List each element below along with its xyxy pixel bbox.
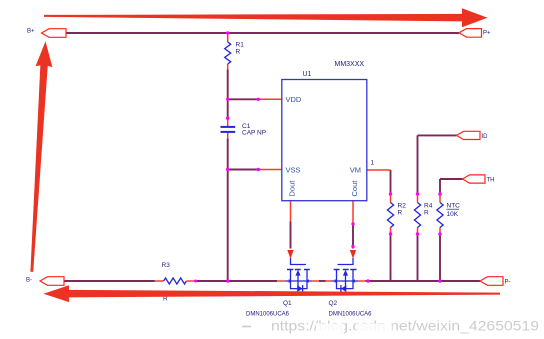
- svg-text:U1: U1: [303, 71, 312, 78]
- pin VDD stub: [258, 98, 282, 100]
- connector B+: [27, 29, 66, 38]
- wire ID net: [418, 135, 457, 281]
- watermark text: [242, 317, 539, 335]
- resistor R2: [387, 194, 406, 234]
- wire VDD row: [228, 98, 259, 100]
- svg-text:B+: B+: [27, 29, 35, 35]
- svg-text:MM3XXX: MM3XXX: [335, 61, 365, 68]
- wire B- bottom rail: [64, 280, 480, 282]
- transistor Q2: [326, 258, 373, 318]
- node junction dots: [194, 31, 442, 282]
- svg-text:Q1: Q1: [283, 300, 292, 307]
- svg-text:TH: TH: [487, 178, 495, 184]
- svg-text:CAP NP: CAP NP: [242, 130, 266, 137]
- svg-text:Cout: Cout: [350, 180, 359, 197]
- pin Cout stub: [352, 201, 354, 223]
- connector TH: [463, 175, 495, 184]
- svg-text:R4: R4: [424, 203, 433, 210]
- wire TH net: [440, 179, 463, 281]
- svg-text:R: R: [236, 49, 241, 56]
- svg-text:https://blog.csdn.net/weixin_4: https://blog.csdn.net/weixin_42650519: [271, 318, 539, 334]
- svg-text:R1: R1: [236, 42, 245, 49]
- svg-text:Dout: Dout: [287, 180, 296, 197]
- svg-text:10K: 10K: [447, 211, 459, 218]
- red annotation arrow left (upward): [23, 41, 53, 273]
- wire C1 vertical: [227, 99, 229, 169]
- wire VM net vertical to R2: [390, 170, 392, 281]
- svg-text:VM: VM: [350, 165, 361, 174]
- wire Dout to Q1 gate: [290, 222, 292, 249]
- svg-text:R2: R2: [398, 203, 407, 210]
- svg-text:1: 1: [371, 160, 375, 167]
- resistor R3: [155, 262, 196, 303]
- capacitor C1: [221, 118, 267, 138]
- wire VSS junction down to B- rail: [227, 170, 229, 282]
- svg-text:R: R: [424, 210, 429, 217]
- wire top B+ to P+: [66, 32, 459, 34]
- svg-text:VDD: VDD: [286, 95, 302, 104]
- wire R1 to VDD vertical: [227, 70, 229, 100]
- svg-text:ID: ID: [482, 134, 489, 140]
- red arrowhead Dout into Q1 gate: [287, 250, 293, 259]
- svg-text:R: R: [398, 210, 403, 217]
- wire VSS row: [228, 169, 259, 171]
- svg-text:VSS: VSS: [286, 165, 301, 174]
- svg-text:B-: B-: [26, 278, 32, 284]
- connector ID: [457, 131, 489, 140]
- connector P-: [480, 277, 511, 286]
- pin Dout stub: [290, 201, 292, 222]
- red arrowhead Cout into Q2 gate: [350, 250, 356, 259]
- resistor R1: [225, 33, 244, 70]
- op-amp U1 (IC MM3XXX body): [282, 61, 375, 201]
- thermistor NTC 10K: [437, 194, 460, 234]
- pin VSS stub: [258, 169, 282, 171]
- red annotation arrow bottom (right to left): [44, 285, 501, 302]
- resistor R4: [414, 194, 432, 234]
- transistor Q1: [246, 258, 319, 318]
- wire Cout to Q2 gate: [352, 223, 354, 249]
- svg-text:P+: P+: [483, 31, 491, 37]
- svg-text:NTC: NTC: [447, 203, 461, 210]
- svg-text:R3: R3: [162, 262, 171, 269]
- red annotation arrow top (left to right): [44, 8, 488, 27]
- connector B-: [26, 277, 64, 286]
- connector P+: [459, 29, 491, 38]
- svg-text:Q2: Q2: [329, 300, 338, 307]
- svg-text:P-: P-: [505, 280, 511, 286]
- pin VM stub: [367, 169, 391, 171]
